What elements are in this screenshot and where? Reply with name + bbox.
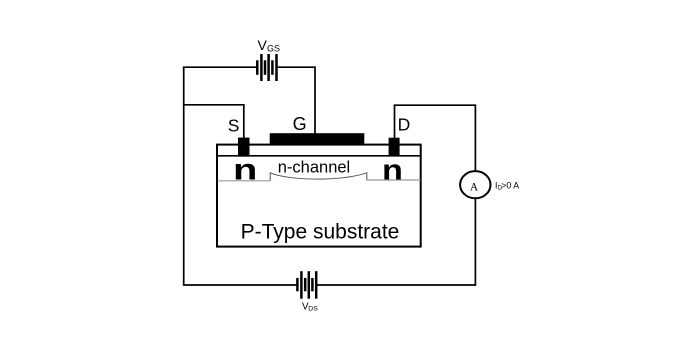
wire drain vertical	[394, 105, 396, 139]
drain contact	[389, 138, 400, 156]
wire left vertical	[183, 67, 185, 285]
wire top horizontal VGS to gate corner	[277, 66, 316, 68]
wire ammeter to bottom	[474, 198, 476, 285]
gate electrode bar	[270, 133, 365, 144]
wire right vertical to ammeter	[474, 104, 476, 171]
svg-text:S: S	[228, 116, 240, 136]
source contact	[238, 138, 250, 157]
svg-text:GS: GS	[267, 43, 280, 53]
wire gate vertical	[314, 66, 316, 134]
svg-text:P-Type substrate: P-Type substrate	[241, 221, 400, 244]
wire drain horizontal	[394, 104, 476, 106]
wire bottom horizontal left	[183, 284, 298, 286]
svg-text:A: A	[470, 182, 479, 194]
svg-text:n: n	[233, 153, 257, 186]
oxide line	[216, 155, 422, 157]
n-region line left	[218, 180, 271, 182]
label ID>0 A	[495, 180, 519, 191]
ammeter A	[460, 171, 490, 198]
battery VGS	[257, 54, 276, 81]
battery VDS	[297, 271, 316, 299]
wire bottom horizontal right	[316, 284, 476, 286]
svg-text:>0 A: >0 A	[501, 180, 519, 190]
channel depletion curve	[270, 173, 367, 181]
label VGS	[258, 37, 281, 54]
svg-text:n: n	[382, 153, 403, 186]
svg-text:n-channel: n-channel	[278, 159, 350, 177]
svg-text:G: G	[293, 114, 307, 134]
wire source vertical	[243, 104, 245, 139]
n-region line right	[367, 179, 421, 181]
wire source horizontal	[184, 104, 244, 106]
substrate box	[217, 145, 421, 247]
svg-text:V: V	[258, 37, 268, 53]
wire top horizontal left to VGS	[183, 66, 257, 68]
label VDS	[302, 301, 318, 312]
svg-text:DS: DS	[308, 306, 318, 313]
svg-text:D: D	[398, 114, 411, 134]
